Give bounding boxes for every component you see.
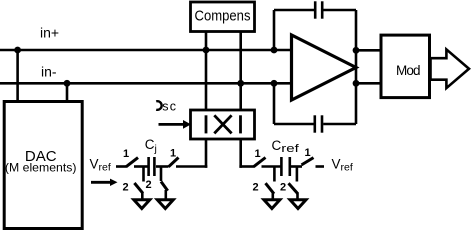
label phi sc	[156, 101, 161, 110]
svg-text:1: 1	[255, 148, 261, 160]
switch S5 phase 2 blade	[134, 183, 143, 193]
arrow phi sc control	[159, 120, 192, 129]
svg-text:Compens: Compens	[195, 9, 251, 25]
capacitor Cref	[281, 157, 289, 176]
svg-text:Mod: Mod	[396, 63, 421, 78]
svg-text:in-: in-	[41, 63, 57, 79]
ground for Cref right	[290, 193, 306, 209]
wire chopper right output down	[239, 139, 242, 168]
wire S2 to chopper	[176, 165, 207, 168]
wire output bottom to Mod	[356, 82, 382, 85]
wire bottom loop left	[274, 123, 314, 126]
svg-text:(M elements): (M elements)	[5, 160, 77, 174]
wire Cj to S2	[156, 165, 169, 168]
capacitor Cj	[149, 157, 155, 176]
wire chopper to S3	[239, 165, 254, 168]
wire S1 to Cj	[134, 165, 148, 168]
wire top loop right	[323, 9, 356, 12]
svg-text:2: 2	[253, 182, 259, 194]
arrow Vref input indicator	[91, 179, 118, 186]
node junction in- / bottom loop	[271, 80, 278, 87]
op-amp U2	[292, 35, 357, 100]
svg-text:sc: sc	[162, 100, 177, 114]
node junction output top	[353, 47, 360, 54]
wire top loop left	[274, 9, 314, 12]
wire DAC tap from in+	[16, 50, 19, 102]
node junction in+ / chopper	[203, 47, 210, 54]
node junction in- / DAC	[64, 80, 71, 87]
Mod box	[381, 35, 430, 98]
chopper U1 box	[191, 110, 255, 139]
wire Cj left ground lead	[142, 167, 145, 182]
wire Cref to S4	[291, 165, 302, 168]
DAC box (M elements)	[4, 102, 82, 229]
capacitor C1 top integrator	[315, 1, 322, 18]
wire Cref right ground lead	[296, 167, 299, 182]
output block arrow	[431, 49, 470, 88]
node junction output bottom	[353, 80, 360, 87]
wire S3 to Cref	[262, 165, 281, 168]
svg-text:1: 1	[305, 147, 311, 159]
ground for Cj left	[134, 192, 150, 209]
switch S1 phase 1 blade	[126, 158, 138, 167]
wire top feedback tap	[273, 10, 276, 50]
wire output top to Mod	[356, 49, 382, 52]
node junction in+ / top loop	[271, 47, 278, 54]
svg-text:in+: in+	[40, 25, 59, 41]
ground for Cref left	[264, 193, 280, 209]
switch S4 phase 1 blade	[302, 158, 314, 165]
switch S3 phase 1 blade	[254, 158, 266, 167]
switch S7 phase 2 blade	[266, 183, 275, 194]
Compens box	[191, 2, 255, 32]
wire DAC tap from in-	[66, 83, 69, 102]
wire S4 to Vref right	[316, 165, 325, 168]
wire Compens right vertical	[239, 32, 242, 111]
svg-text:1: 1	[123, 148, 129, 160]
ground for Cj right	[157, 190, 173, 209]
wire in-	[0, 82, 292, 85]
svg-text:1: 1	[170, 148, 176, 160]
wire Vref lead Cj	[116, 165, 127, 168]
switch S2 phase 1 blade	[169, 158, 179, 167]
wire in+	[0, 49, 292, 52]
wire Cj right ground lead	[160, 167, 163, 182]
wire bottom loop right	[323, 123, 356, 126]
svg-text:2: 2	[146, 179, 152, 191]
switch S6 phase 2 blade	[161, 182, 168, 191]
wire output vertical	[355, 10, 358, 124]
node junction in+ / DAC	[14, 47, 21, 54]
capacitor C2 bottom integrator	[315, 115, 322, 132]
wire Cref left ground lead	[273, 167, 276, 182]
svg-text:2: 2	[123, 182, 129, 194]
svg-text:2: 2	[280, 182, 286, 194]
wire Compens left vertical	[205, 32, 208, 111]
wire chopper left output down	[205, 139, 208, 168]
switch S8 phase 2 blade	[289, 183, 298, 194]
node junction in- / chopper	[237, 80, 244, 87]
wire bottom feedback tap	[273, 83, 276, 124]
